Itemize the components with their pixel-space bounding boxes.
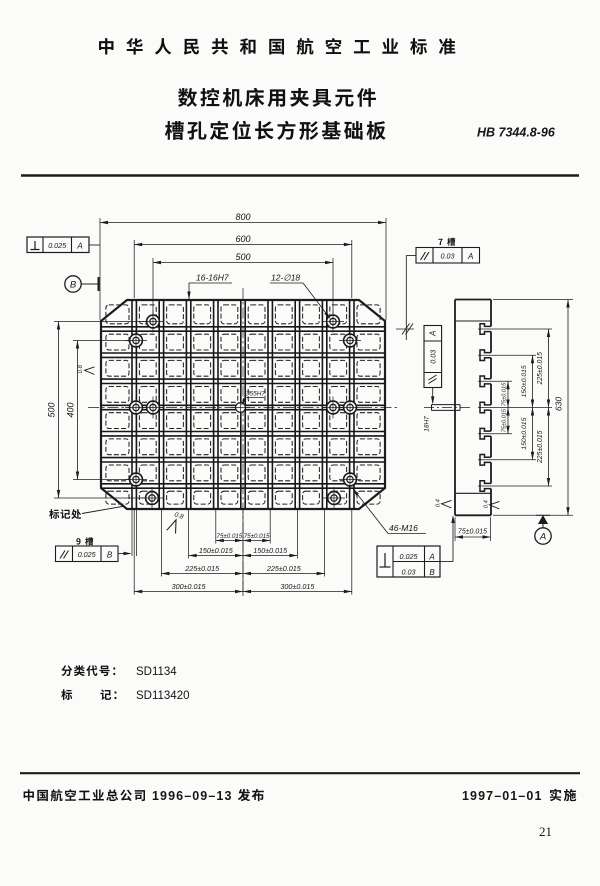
svg-text:0.4: 0.4 <box>484 500 490 508</box>
svg-text:∅55H7: ∅55H7 <box>244 391 266 398</box>
label phi55H7 with leader <box>240 391 266 407</box>
title line 3: subject line 2 <box>165 121 386 140</box>
side dim 75+-0.015 bottom <box>455 529 491 539</box>
svg-text:B: B <box>429 568 435 577</box>
T-slot notch #7 in side view <box>480 481 491 492</box>
svg-text:A: A <box>539 532 546 543</box>
title line 2: subject line 1 <box>178 88 376 107</box>
svg-text:400: 400 <box>66 402 76 417</box>
dim 800 <box>100 212 386 224</box>
svg-text:18H7: 18H7 <box>424 416 431 432</box>
center hole phi55H7 <box>231 398 250 417</box>
18H7 pin hole on left face <box>424 405 471 411</box>
footer rule <box>20 772 580 774</box>
label 16-16H7 with leader <box>187 273 232 300</box>
svg-text:75±0.015: 75±0.015 <box>244 533 270 540</box>
roughness mark 0.8 on left extension <box>78 364 95 374</box>
svg-text:46-M16: 46-M16 <box>389 523 418 533</box>
hole phi18 #7 <box>322 311 344 333</box>
hole phi18 #2 <box>125 330 147 352</box>
dim chain 75/75 <box>216 533 270 542</box>
svg-text:0.025: 0.025 <box>78 550 97 559</box>
hole phi18 #5 <box>125 469 147 491</box>
svg-text:500: 500 <box>47 402 57 417</box>
T-slot notch #5 in side view <box>480 428 491 439</box>
svg-text:225±0.015: 225±0.015 <box>184 564 220 573</box>
classification code line <box>61 665 177 678</box>
header rule <box>21 174 579 176</box>
label 46-M16 with leader <box>351 487 426 533</box>
label 9 slots <box>76 537 93 545</box>
main view plate outline (octagon) <box>101 300 385 509</box>
svg-text:800: 800 <box>235 212 250 222</box>
feature frame parallel 0.03 A rotated (left of side view) <box>424 326 442 405</box>
svg-text:600: 600 <box>235 234 250 244</box>
svg-text:300±0.015: 300±0.015 <box>172 582 207 591</box>
roughness mark 0.4 left of side view bottom <box>436 499 452 508</box>
svg-text:630: 630 <box>554 397 564 411</box>
label 12-phi18 with leader <box>270 273 332 321</box>
dim 500 vertical <box>47 322 61 499</box>
dim 400 vertical extension lines <box>73 341 130 480</box>
svg-text:0.025: 0.025 <box>48 241 67 250</box>
svg-text:150±0.015: 150±0.015 <box>199 546 234 555</box>
svg-text:150±0.015: 150±0.015 <box>521 365 528 397</box>
svg-text:SD113420: SD113420 <box>136 690 190 702</box>
svg-text:0.03: 0.03 <box>441 252 455 261</box>
dim chain 300/300 <box>134 582 352 593</box>
hole phi18 #6 <box>141 487 163 509</box>
hole phi18 #10 <box>322 397 344 419</box>
svg-text:0.03: 0.03 <box>402 568 416 577</box>
svg-text:1996–09–13: 1996–09–13 <box>152 789 233 803</box>
svg-text:1997–01–01: 1997–01–01 <box>462 789 543 803</box>
side view chamfer edge lines <box>455 321 491 493</box>
svg-text:A: A <box>467 252 473 261</box>
hole phi18 #1 <box>142 311 164 333</box>
svg-text:0.4: 0.4 <box>436 499 442 507</box>
label marking place (biao ji chu) with leader <box>49 506 125 519</box>
dim 800 extension lines <box>100 218 386 320</box>
svg-text:0.025: 0.025 <box>400 552 419 561</box>
label 7 slots <box>438 238 455 246</box>
svg-text:A: A <box>76 242 82 251</box>
svg-text:16-16H7: 16-16H7 <box>196 273 229 283</box>
hole phi18 #9 <box>339 397 361 419</box>
vertical T-slots (9) solid edge lines <box>132 300 354 509</box>
dim chain 150/150 <box>189 546 298 557</box>
feature frame parallel 0.03 A top right <box>396 248 480 341</box>
horizontal T-slots (7) solid edge lines <box>101 327 385 488</box>
svg-text:225±0.015: 225±0.015 <box>537 430 544 464</box>
svg-text:B: B <box>107 551 113 560</box>
hole phi18 #4 <box>142 397 164 419</box>
roughness mark 0.4 right of side view bottom <box>484 500 500 509</box>
title line 1: national standard heading <box>99 38 455 55</box>
side view outline <box>455 300 491 516</box>
hole phi18 #12 <box>323 487 345 509</box>
svg-text:75±0.015: 75±0.015 <box>458 529 487 536</box>
svg-text:0.8: 0.8 <box>78 364 84 373</box>
dim 500 vertical extension lines <box>54 322 146 499</box>
dim 600 extension lines <box>134 240 352 298</box>
svg-text:500: 500 <box>235 252 250 262</box>
T-slot notch #2 in side view <box>480 350 491 361</box>
side dim 75 bottom extension lines <box>455 517 491 541</box>
svg-text:21: 21 <box>539 824 552 839</box>
svg-text:300±0.015: 300±0.015 <box>280 582 315 591</box>
svg-text:SD1134: SD1134 <box>136 666 177 678</box>
svg-text:225±0.015: 225±0.015 <box>266 564 302 573</box>
svg-text:A: A <box>429 331 438 337</box>
side dim 630 vertical <box>554 300 570 516</box>
hole phi18 #8 <box>339 330 361 352</box>
svg-text:75±0.015: 75±0.015 <box>217 533 243 540</box>
hidden tee contours: dashed rounded squares on islands <box>106 305 380 504</box>
svg-text:75±0.015: 75±0.015 <box>501 382 507 406</box>
T-slot notch #1 in side view <box>480 324 491 335</box>
svg-text:12-∅18: 12-∅18 <box>271 273 300 283</box>
dim 600 <box>134 234 352 246</box>
side dim chain 150/150 vertical <box>521 355 534 460</box>
marking designation line <box>61 689 189 702</box>
main view horizontal centerline <box>88 407 398 409</box>
main view vertical centerline <box>242 288 244 596</box>
svg-text:HB 7344.8-96: HB 7344.8-96 <box>477 126 556 140</box>
hole phi18 #3 <box>125 397 147 419</box>
dim 500 extension lines <box>153 258 333 314</box>
feature frame parallel 0.025 B <box>56 546 132 562</box>
T-slot notch #3 in side view <box>480 376 491 387</box>
footer right: implementation date <box>462 789 576 803</box>
datum B circle <box>65 276 99 292</box>
dim 400 vertical <box>66 341 80 480</box>
svg-text:225±0.015: 225±0.015 <box>537 352 544 386</box>
side dim chain 75/75 vertical <box>501 381 509 433</box>
datum A symbol bottom <box>535 515 551 544</box>
hole phi18 #11 <box>339 469 361 491</box>
slot centerline extensions right side <box>478 300 573 516</box>
dim 500 <box>153 252 333 264</box>
svg-text:150±0.015: 150±0.015 <box>253 546 288 555</box>
T-slot notch #4 in side view <box>480 402 491 413</box>
dim chain 225/225 <box>161 564 324 575</box>
svg-text:75±0.015: 75±0.015 <box>501 408 507 432</box>
feature frame perpendicular 0.025 A / 0.03 B <box>377 515 455 577</box>
T-slot notch #6 in side view <box>480 455 491 466</box>
svg-text:150±0.015: 150±0.015 <box>521 417 528 449</box>
svg-text:A: A <box>428 553 434 562</box>
roughness mark 0.8 below plate <box>167 511 185 535</box>
side dim chain 225/225 vertical <box>537 329 550 486</box>
svg-text:B: B <box>70 280 77 291</box>
feature frame perpendicular 0.025 A top left <box>27 237 100 253</box>
footer left: issuing body and date <box>24 789 264 803</box>
bottom chain extension lines <box>132 509 352 595</box>
svg-text:0.03: 0.03 <box>429 350 438 364</box>
